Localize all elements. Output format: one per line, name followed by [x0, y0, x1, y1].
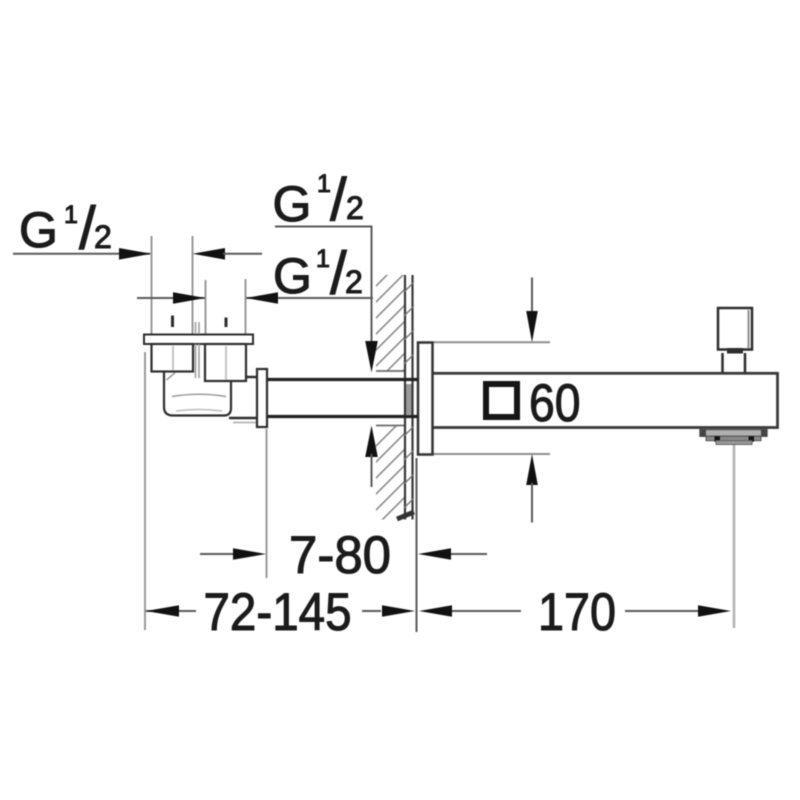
wall finish layer left line — [404, 275, 406, 520]
right union nut — [205, 344, 246, 381]
arrow down-pointing at plate top — [526, 311, 538, 342]
aerator ring — [706, 436, 761, 440]
knob right shade — [748, 310, 750, 348]
extension line left nut left edge — [151, 236, 153, 334]
wall layer gray fill at pipe crossing — [404, 384, 414, 415]
wall finish layer right line — [411, 275, 413, 520]
left union nut — [152, 344, 194, 372]
arrow down-pointing at wall pipe top — [365, 341, 378, 373]
arrow left-pointing at x=419 — [419, 605, 452, 617]
aerator ring black squares — [715, 436, 721, 442]
arrow right-pointing at x=205.5 — [173, 292, 206, 304]
wall rough hatch lower — [370, 412, 410, 548]
wall hole top edge — [376, 370, 404, 372]
dimension line B left segment — [137, 297, 206, 299]
aerator center extension line — [733, 445, 736, 628]
elbow inner lower arc — [176, 410, 222, 412]
dim 170 right line — [625, 610, 698, 612]
svg-text:1: 1 — [317, 170, 331, 198]
center line right nut — [225, 346, 227, 380]
aerator collar — [700, 430, 767, 437]
svg-text:170: 170 — [538, 583, 616, 642]
arrow up-pointing at wall pipe bottom — [365, 426, 378, 458]
dim 7-80 right line — [451, 553, 487, 555]
plate top extension line — [433, 341, 550, 343]
shadow line under elbow outlet — [233, 422, 257, 424]
svg-text:1: 1 — [316, 245, 330, 273]
svg-text:G: G — [19, 202, 58, 258]
extension line wall face — [416, 458, 418, 632]
svg-text:60: 60 — [529, 374, 581, 433]
label G 1/2 top-center — [273, 166, 364, 233]
union ring — [257, 369, 267, 427]
extension line left nut right edge — [192, 236, 194, 334]
wall plate — [418, 343, 433, 455]
knob notch — [727, 348, 743, 354]
leader line under top-center G 1/2 — [275, 227, 372, 345]
vertical dim leader top at x=532 — [531, 278, 533, 314]
dim 72-145 left line — [146, 610, 196, 612]
aerator collar dark ends — [700, 430, 706, 437]
leader line under top-left G 1/2 — [13, 253, 150, 255]
svg-text:7-80: 7-80 — [289, 526, 391, 585]
aerator tip — [716, 441, 752, 445]
center line left nut — [172, 346, 174, 370]
spout body — [432, 373, 778, 427]
outlet pipe elbow to ring bottom — [229, 417, 258, 420]
extension line flange left (72-145) — [144, 352, 146, 630]
arrow left-pointing at x=245.5 — [246, 292, 279, 304]
arrow left-pointing at x=418 — [418, 548, 451, 560]
arrow right-pointing at x=731 — [698, 605, 731, 617]
tail line right of dim A — [223, 253, 262, 255]
wall rough hatch upper — [370, 252, 410, 420]
dim 72-145 right line — [362, 610, 381, 612]
svg-text:G: G — [273, 248, 312, 304]
extension line ring right (7-80) — [266, 429, 268, 578]
wall finish fine hatch — [404, 283, 414, 509]
arrow left-pointing at x=192.5 (dim A right) — [193, 248, 226, 260]
vertical dim leader bottom at x=532 — [531, 483, 533, 523]
arrow right-pointing at x=151.5 (dim A left) — [119, 248, 152, 260]
elbow inner curve — [172, 394, 226, 396]
stub tick left inlet — [171, 316, 174, 328]
dimension line B right segment (leader of middle G 1/2) — [246, 297, 374, 299]
flange bar — [144, 335, 253, 345]
svg-text:72-145: 72-145 — [204, 583, 352, 642]
knob stem left — [721, 353, 724, 373]
square symbol for 60 — [486, 384, 517, 417]
outlet pipe elbow to ring top — [229, 376, 258, 379]
wall hole bottom edge — [376, 425, 404, 427]
plate bottom extension line — [433, 453, 550, 455]
stub tick right inlet — [225, 318, 228, 328]
extension line right nut right edge — [245, 279, 247, 334]
tube lines above flange — [195, 322, 197, 334]
svg-text:2: 2 — [346, 190, 364, 226]
wall layer bottom cap — [397, 512, 414, 519]
elbow shoulder slant — [167, 373, 176, 380]
main pipe top edge — [267, 378, 418, 381]
arrow right-pointing at x=266 — [233, 548, 266, 560]
main pipe bottom edge — [267, 415, 418, 418]
arrow right-pointing at x=415 — [382, 605, 415, 617]
elbow body — [164, 373, 231, 416]
svg-text:2: 2 — [94, 219, 112, 255]
arrow up-pointing at plate bottom — [526, 454, 538, 485]
dim 170 left line — [452, 610, 521, 612]
knob — [718, 308, 752, 350]
dim 7-80 left line — [200, 553, 233, 555]
leader line below pipe — [371, 454, 373, 487]
svg-text:1: 1 — [64, 201, 78, 229]
label G 1/2 middle — [273, 240, 363, 307]
arrow left-pointing at x=146 — [146, 605, 179, 617]
knob stem right — [744, 353, 747, 373]
extension line right nut left edge — [205, 280, 207, 334]
svg-text:G: G — [273, 176, 312, 232]
svg-text:/: / — [330, 166, 347, 233]
tube lines between nuts — [195, 344, 197, 378]
svg-text:2: 2 — [345, 264, 363, 300]
label G 1/2 top-left — [19, 195, 112, 262]
